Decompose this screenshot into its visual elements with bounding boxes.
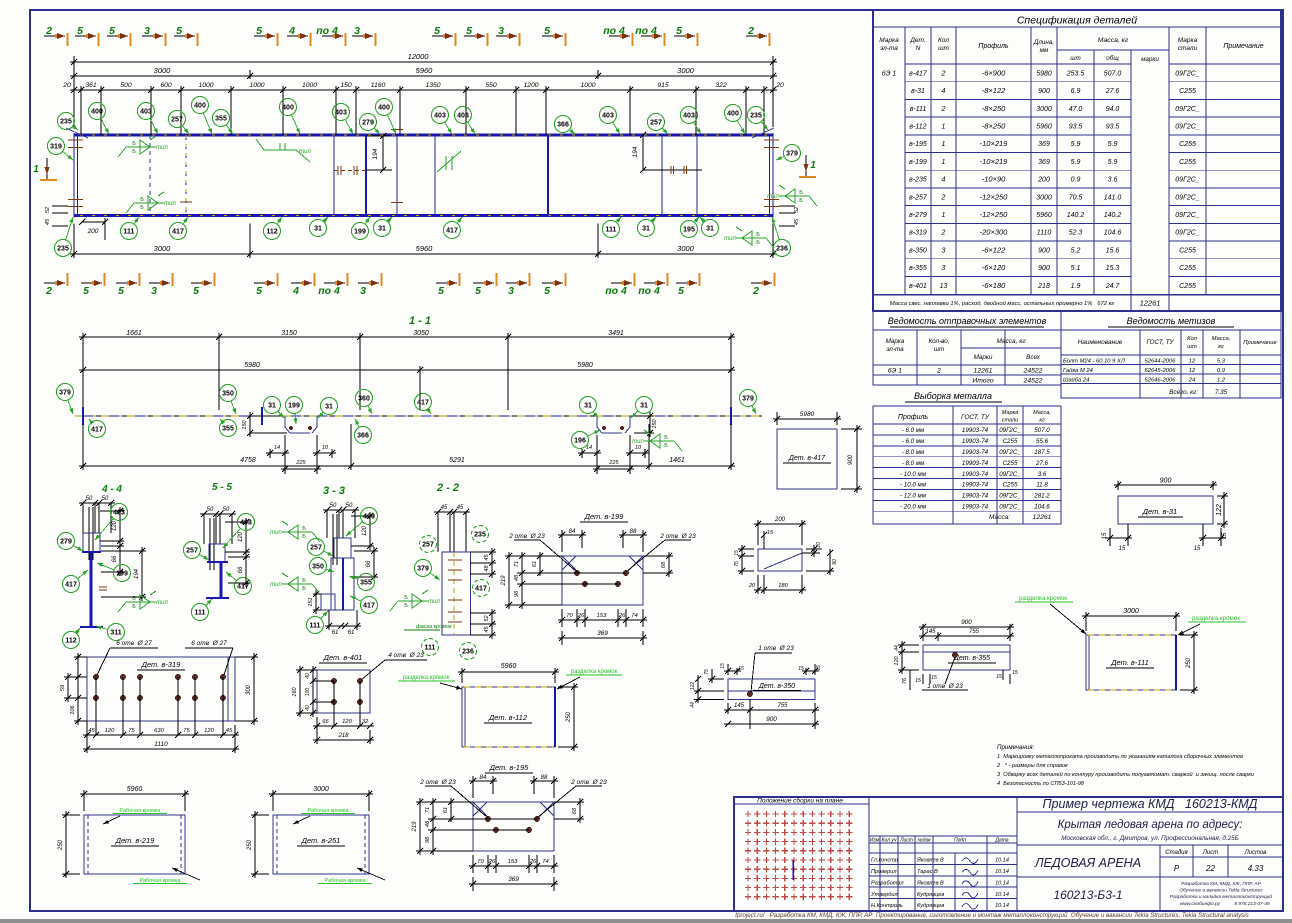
svg-text:31: 31 (268, 403, 276, 410)
right channel dims (634, 415, 654, 417)
svg-text:Дет. в-355: Дет. в-355 (953, 655, 990, 662)
svg-text:Марка: Марка (1002, 410, 1018, 416)
left channel dims (250, 415, 281, 417)
svg-text:Б: Б (664, 435, 668, 441)
svg-text:84: 84 (480, 775, 487, 781)
svg-text:160: 160 (292, 686, 298, 696)
detail в-251 plate (273, 815, 369, 874)
svg-text:ГОСТ, ТУ: ГОСТ, ТУ (1146, 339, 1174, 346)
в-31 corner dims 15 (1127, 524, 1129, 546)
callout 195 (681, 221, 698, 238)
svg-text:7.35: 7.35 (1215, 389, 1228, 396)
svg-text:Рабочая кромка: Рабочая кромка (308, 808, 350, 814)
section mark 5 (473, 282, 494, 284)
callout 366 (555, 116, 572, 133)
svg-text:С255: С255 (1179, 265, 1196, 272)
svg-text:тип: тип (632, 439, 644, 445)
в-401 bottom dims (313, 725, 374, 727)
svg-text:09Г2С_: 09Г2С_ (1175, 70, 1200, 77)
svg-text:900: 900 (1038, 247, 1050, 254)
в-355 top dims (922, 624, 924, 641)
section mark 5 (542, 282, 563, 284)
section mark 2 (746, 35, 767, 37)
svg-text:эл-та: эл-та (880, 45, 898, 52)
svg-text:Разработал: Разработал (871, 880, 904, 886)
svg-text:361: 361 (85, 82, 97, 89)
в-199 corner crosses (562, 556, 576, 570)
svg-text:600: 600 (160, 82, 172, 89)
в-111 dim 250 (1180, 634, 1198, 636)
svg-text:403: 403 (683, 113, 695, 120)
5-5 tee top flange (207, 561, 228, 563)
weld symbol top left (126, 146, 156, 148)
svg-text:32: 32 (362, 719, 369, 725)
svg-text:Гл.констр: Гл.констр (871, 858, 898, 864)
bottom gray strip (0, 919, 1292, 923)
svg-text:755: 755 (969, 629, 980, 635)
в-195 left dims (416, 801, 473, 803)
svg-text:тип: тип (156, 600, 168, 606)
в-401 hole leader (385, 659, 427, 661)
girder right end plate (772, 133, 774, 218)
svg-text:ГОСТ, ТУ: ГОСТ, ТУ (961, 414, 990, 421)
detail в-401 plate (317, 670, 370, 713)
svg-text:48: 48 (514, 574, 520, 581)
title: ЛЕДОВАЯ АРЕНА cell (1017, 876, 1283, 878)
svg-text:Б: Б (404, 595, 408, 601)
svg-text:5.9: 5.9 (1071, 159, 1081, 166)
svg-text:Утвердил: Утвердил (870, 892, 898, 898)
svg-text:6 отв Ø 27: 6 отв Ø 27 (191, 640, 227, 647)
svg-text:-6×122: -6×122 (982, 245, 1006, 254)
vertical dim 194 left (382, 136, 384, 170)
svg-text:19903-74: 19903-74 (962, 438, 989, 445)
callout 379 (740, 390, 757, 407)
svg-text:507.0: 507.0 (1104, 70, 1122, 77)
callout 279 (360, 114, 377, 131)
svg-text:3000: 3000 (154, 66, 172, 75)
svg-text:-20×300: -20×300 (980, 228, 1009, 237)
detail в-319 plate (87, 657, 235, 721)
svg-text:Масса свес. наплавки 1%, расхо: Масса свес. наплавки 1%, расход, двойной… (890, 300, 1114, 307)
svg-text:кг: кг (1039, 418, 1045, 424)
svg-text:61: 61 (348, 630, 355, 636)
svg-text:Всего, кг:: Всего, кг: (1169, 389, 1198, 396)
svg-text:5: 5 (77, 25, 83, 37)
svg-text:47.0: 47.0 (1069, 106, 1083, 113)
svg-text:45: 45 (45, 218, 51, 225)
callout 236 (774, 240, 791, 257)
svg-text:- 6.0 мм: - 6.0 мм (902, 427, 925, 434)
svg-text:1: 1 (942, 159, 946, 166)
leader 235 top-left diagonal (66, 128, 88, 138)
section mark 1 left (46, 158, 48, 180)
svg-text:200: 200 (1037, 177, 1050, 184)
section mark 5 (254, 35, 275, 37)
svg-text:тип: тип (270, 582, 282, 588)
svg-text:в-417: в-417 (909, 70, 928, 77)
в-319 right dim 300 (235, 656, 258, 658)
svg-text:3: 3 (144, 25, 150, 37)
svg-text:5: 5 (256, 285, 262, 297)
svg-text:4 отв Ø 23: 4 отв Ø 23 (388, 652, 424, 659)
weld symbol right top (779, 195, 809, 197)
svg-text:0.9: 0.9 (1217, 368, 1226, 374)
в-199 top dims 84 88 (561, 530, 563, 552)
svg-text:45: 45 (457, 505, 464, 511)
svg-text:403: 403 (240, 520, 252, 527)
svg-text:219: 219 (412, 821, 418, 833)
svg-text:52: 52 (484, 615, 490, 621)
callout 379 (57, 384, 74, 401)
svg-text:Марка: Марка (879, 37, 899, 44)
svg-text:по 4: по 4 (603, 25, 625, 37)
svg-text:417: 417 (237, 584, 249, 591)
svg-text:1000: 1000 (249, 82, 264, 89)
svg-text:403: 403 (335, 110, 347, 117)
svg-text:www.снабинфо.ру: www.снабинфо.ру (1180, 901, 1221, 907)
svg-text:75: 75 (734, 561, 740, 567)
svg-text:403: 403 (434, 113, 446, 120)
svg-text:68: 68 (661, 561, 667, 568)
в-199 hole leaders (514, 539, 540, 541)
svg-text:100: 100 (305, 688, 311, 697)
section mark по 4 (644, 282, 665, 284)
callout 31 (310, 220, 327, 237)
svg-text:09Г2С_: 09Г2С_ (999, 471, 1021, 478)
svg-text:3000: 3000 (313, 786, 329, 793)
svg-text:4: 4 (288, 25, 295, 37)
3-3 dims (351, 515, 374, 517)
svg-text:19903-74: 19903-74 (962, 471, 989, 478)
callout 112 (264, 223, 281, 240)
svg-text:145: 145 (734, 703, 745, 709)
svg-text:4 - 4: 4 - 4 (101, 484, 122, 495)
svg-text:5980: 5980 (577, 362, 593, 369)
svg-text:322: 322 (715, 82, 727, 89)
2-2 plate body (442, 552, 471, 635)
2-2 bolt line dashed (453, 552, 455, 635)
5-5 dims right (225, 521, 250, 523)
svg-text:15.6: 15.6 (1106, 247, 1120, 254)
svg-text:379: 379 (742, 396, 754, 403)
section mark 3 (506, 282, 527, 284)
svg-text:257: 257 (422, 542, 434, 549)
svg-text:5.9: 5.9 (1108, 141, 1118, 148)
в-355 left dims (898, 644, 919, 646)
detail в-199 plate (562, 556, 643, 605)
svg-text:в-257: в-257 (909, 194, 928, 201)
svg-text:6Э 1: 6Э 1 (882, 70, 897, 77)
svg-text:31: 31 (584, 403, 592, 410)
svg-text:13: 13 (940, 283, 948, 290)
hatch plan blue mark (792, 860, 794, 880)
svg-text:369: 369 (1038, 159, 1050, 166)
5-5 callouts (238, 514, 255, 531)
callout 235 (748, 107, 765, 124)
svg-text:в-111: в-111 (910, 106, 927, 113)
svg-text:15: 15 (816, 665, 822, 671)
svg-text:- 10.0 мм: - 10.0 мм (900, 482, 927, 489)
svg-text:1000: 1000 (198, 82, 213, 89)
svg-text:3.6: 3.6 (1108, 177, 1118, 184)
svg-text:900: 900 (1160, 478, 1172, 485)
callout 400 (280, 99, 297, 116)
svg-text:Б: Б (132, 604, 136, 610)
svg-text:ЛЕДОВАЯ АРЕНА: ЛЕДОВАЯ АРЕНА (1034, 856, 1141, 870)
svg-text:3000: 3000 (677, 66, 695, 75)
red hatch plan (745, 811, 853, 900)
svg-text:150: 150 (242, 419, 248, 429)
svg-text:15: 15 (996, 674, 1002, 680)
svg-text:20: 20 (62, 82, 71, 89)
girder left end plate (73, 133, 75, 218)
svg-text:10: 10 (635, 445, 642, 451)
svg-text:Б: Б (132, 141, 136, 147)
svg-text:3000: 3000 (1123, 608, 1139, 615)
3-3 plate body (331, 558, 354, 610)
svg-text:в-31: в-31 (911, 88, 925, 95)
center tick marks on stiffeners (180, 201, 192, 203)
в-251 dim 250 (251, 814, 269, 816)
svg-text:15.3: 15.3 (1106, 265, 1120, 272)
svg-text:3: 3 (360, 285, 366, 297)
svg-text:250: 250 (58, 839, 64, 851)
в-199 bottom dims (561, 609, 563, 627)
в-319 bolts (93, 674, 98, 679)
small dims 52 45 right (779, 205, 795, 207)
svg-text:90: 90 (832, 559, 838, 565)
svg-text:403: 403 (457, 113, 469, 120)
dim 200 at left bottom (82, 221, 105, 223)
svg-text:11.8: 11.8 (1036, 482, 1048, 489)
svg-text:27.6: 27.6 (1035, 460, 1049, 467)
svg-text:4.33: 4.33 (1248, 864, 1264, 873)
callout 403 (455, 107, 472, 124)
svg-text:112: 112 (65, 638, 76, 645)
svg-text:тип: тип (767, 194, 779, 200)
svg-text:Марки: Марки (974, 354, 993, 361)
splice marks left (334, 170, 366, 172)
svg-text:1000: 1000 (580, 82, 595, 89)
callout 355 (213, 110, 230, 127)
detail в-195 plate (473, 802, 554, 851)
svg-text:Кудрявцев: Кудрявцев (917, 892, 944, 898)
svg-text:кг: кг (1218, 344, 1224, 350)
svg-text:196: 196 (574, 438, 586, 445)
svg-text:319: 319 (50, 144, 62, 151)
svg-text:5980: 5980 (800, 411, 815, 418)
svg-text:369: 369 (1038, 141, 1050, 148)
svg-text:2: 2 (941, 194, 946, 201)
svg-text:5980: 5980 (1036, 70, 1052, 77)
svg-text:15: 15 (1222, 532, 1228, 539)
svg-text:12261: 12261 (1140, 299, 1161, 308)
callout 400 (89, 103, 106, 120)
svg-text:379: 379 (417, 566, 429, 573)
detail в-355 plate (923, 645, 1010, 670)
callout 417 (89, 421, 106, 438)
svg-text:Примечания:: Примечания: (997, 744, 1034, 751)
svg-text:10.14: 10.14 (995, 892, 1009, 898)
svg-text:61: 61 (532, 561, 538, 567)
svg-text:141.0: 141.0 (1104, 194, 1122, 201)
svg-text:2: 2 (747, 25, 754, 37)
svg-text:50: 50 (102, 496, 109, 502)
в-251 dim 3000 (272, 790, 274, 811)
svg-text:48: 48 (484, 565, 490, 572)
svg-text:88: 88 (541, 775, 548, 781)
dim row detailed (80, 86, 82, 135)
svg-text:15: 15 (1102, 532, 1108, 539)
svg-text:Б: Б (664, 443, 668, 449)
svg-text:4: 4 (942, 88, 946, 95)
svg-text:5: 5 (475, 285, 481, 297)
svg-text:Стадия: Стадия (1165, 850, 1188, 856)
svg-text:66: 66 (238, 566, 244, 573)
section mark по 4 (641, 35, 662, 37)
svg-text:403: 403 (602, 113, 614, 120)
svg-text:Б: Б (404, 603, 408, 609)
table Ведомость метизов (1061, 311, 1281, 398)
svg-text:Б: Б (132, 149, 136, 155)
svg-text:общ: общ (1106, 54, 1119, 62)
svg-text:Ведомость отправочных элементо: Ведомость отправочных элементов (888, 316, 1047, 326)
svg-text:52645-2006: 52645-2006 (1145, 368, 1177, 374)
svg-text:1: 1 (33, 164, 39, 175)
svg-text:в-401: в-401 (909, 283, 927, 290)
svg-text:3: 3 (151, 285, 157, 297)
svg-text:3000: 3000 (154, 244, 172, 253)
svg-text:Б: Б (140, 205, 144, 211)
svg-text:5: 5 (676, 25, 682, 37)
svg-text:31: 31 (706, 226, 714, 233)
svg-text:150: 150 (652, 418, 658, 428)
detail в-417 plate (777, 429, 837, 489)
svg-text:1: 1 (942, 123, 946, 130)
dim 122 right of в-31 (1217, 495, 1228, 497)
svg-text:Дет. в-112: Дет. в-112 (488, 713, 528, 722)
section mark 2 (44, 282, 65, 284)
5-5 tee bottom flange (206, 597, 229, 599)
svg-text:Гайка М 24: Гайка М 24 (1063, 367, 1093, 374)
svg-text:Всех: Всех (1026, 354, 1041, 361)
svg-text:120: 120 (204, 728, 214, 734)
svg-text:09Г2С_: 09Г2С_ (1175, 123, 1200, 130)
detail в-219 plate (84, 815, 185, 874)
в-195 bolts (485, 816, 490, 821)
svg-text:5291: 5291 (449, 457, 465, 464)
svg-text:5960: 5960 (416, 66, 434, 75)
svg-text:Масса, кг: Масса, кг (1098, 37, 1129, 44)
svg-text:61: 61 (332, 630, 339, 636)
в-417 dim 900 (841, 428, 862, 430)
svg-text:26: 26 (577, 613, 585, 619)
detail в-112 plate (462, 687, 555, 747)
в-350 dims (727, 703, 729, 714)
svg-text:50: 50 (207, 507, 214, 513)
svg-text:253.5: 253.5 (1066, 70, 1085, 77)
svg-text:2 отв Ø 23: 2 отв Ø 23 (659, 533, 696, 540)
svg-text:31: 31 (314, 226, 322, 233)
svg-text:Положение сборки на плане: Положение сборки на плане (757, 797, 843, 805)
svg-text:31: 31 (642, 226, 650, 233)
svg-text:шт: шт (938, 45, 949, 52)
signature table (869, 835, 1017, 837)
svg-text:N: N (916, 45, 921, 52)
svg-text:Болт М24 - 60.10 9 ХЛ: Болт М24 - 60.10 9 ХЛ (1063, 359, 1125, 365)
svg-text:84: 84 (569, 529, 576, 535)
svg-text:С255: С255 (1179, 141, 1196, 148)
callout 355 (220, 420, 237, 437)
svg-text:417: 417 (172, 229, 184, 236)
svg-text:в-235: в-235 (909, 177, 927, 184)
svg-text:52644-2006: 52644-2006 (1145, 359, 1177, 365)
svg-text:- 20.0 мм: - 20.0 мм (900, 504, 927, 511)
svg-text:75: 75 (183, 728, 190, 734)
svg-text:-12×250: -12×250 (980, 210, 1009, 219)
svg-text:199: 199 (116, 571, 128, 578)
svg-text:Рабочая кромка: Рабочая кромка (120, 808, 162, 814)
svg-text:3000: 3000 (677, 244, 695, 253)
svg-text:45: 45 (441, 505, 448, 511)
svg-text:112: 112 (266, 229, 277, 236)
в-199 left dims (505, 555, 562, 557)
end plate bolt ticks (68, 139, 83, 141)
svg-text:20: 20 (816, 542, 822, 549)
svg-text:1.9: 1.9 (1071, 283, 1081, 290)
callout 379 right (784, 145, 801, 162)
svg-text:по 4: по 4 (316, 25, 338, 37)
svg-text:150: 150 (340, 82, 352, 89)
svg-text:31: 31 (640, 403, 648, 410)
svg-text:Дет. в-31: Дет. в-31 (1142, 507, 1177, 516)
callout 199 (352, 223, 369, 240)
svg-text:3 - 3: 3 - 3 (323, 485, 345, 497)
svg-text:76: 76 (902, 677, 908, 684)
svg-text:тип: тип (428, 599, 440, 605)
svg-text:15: 15 (931, 675, 937, 681)
section mark 2 (751, 282, 772, 284)
в-219 dim 250 (62, 814, 80, 816)
svg-text:разделка кромок: разделка кромок (1019, 595, 1067, 602)
callout 400 (376, 99, 393, 116)
svg-text:5: 5 (544, 285, 550, 297)
svg-text:эл-та: эл-та (886, 346, 904, 353)
svg-text:257: 257 (650, 120, 662, 127)
svg-text:235: 235 (750, 113, 762, 120)
callout 235 (58, 113, 75, 130)
svg-text:75: 75 (704, 669, 710, 675)
svg-text:мм: мм (1040, 47, 1049, 54)
svg-text:122: 122 (1216, 504, 1223, 516)
svg-text:5: 5 (544, 25, 550, 37)
svg-text:Дет. в-199: Дет. в-199 (584, 512, 624, 521)
section mark 5 (174, 35, 195, 37)
3-3 weld symbols (282, 531, 312, 533)
svg-text:45: 45 (484, 626, 490, 633)
svg-text:09Г2С_: 09Г2С_ (999, 493, 1021, 500)
svg-text:тип: тип (270, 530, 282, 536)
splice marks right (670, 166, 672, 174)
svg-text:187.5: 187.5 (1034, 449, 1050, 456)
section mark 5 (254, 282, 275, 284)
svg-text:стали: стали (1002, 418, 1018, 424)
weld symbol right bottom (736, 237, 766, 239)
svg-text:- 8.0 мм: - 8.0 мм (902, 449, 925, 456)
svg-text:5: 5 (434, 25, 440, 37)
svg-text:400: 400 (282, 105, 294, 112)
